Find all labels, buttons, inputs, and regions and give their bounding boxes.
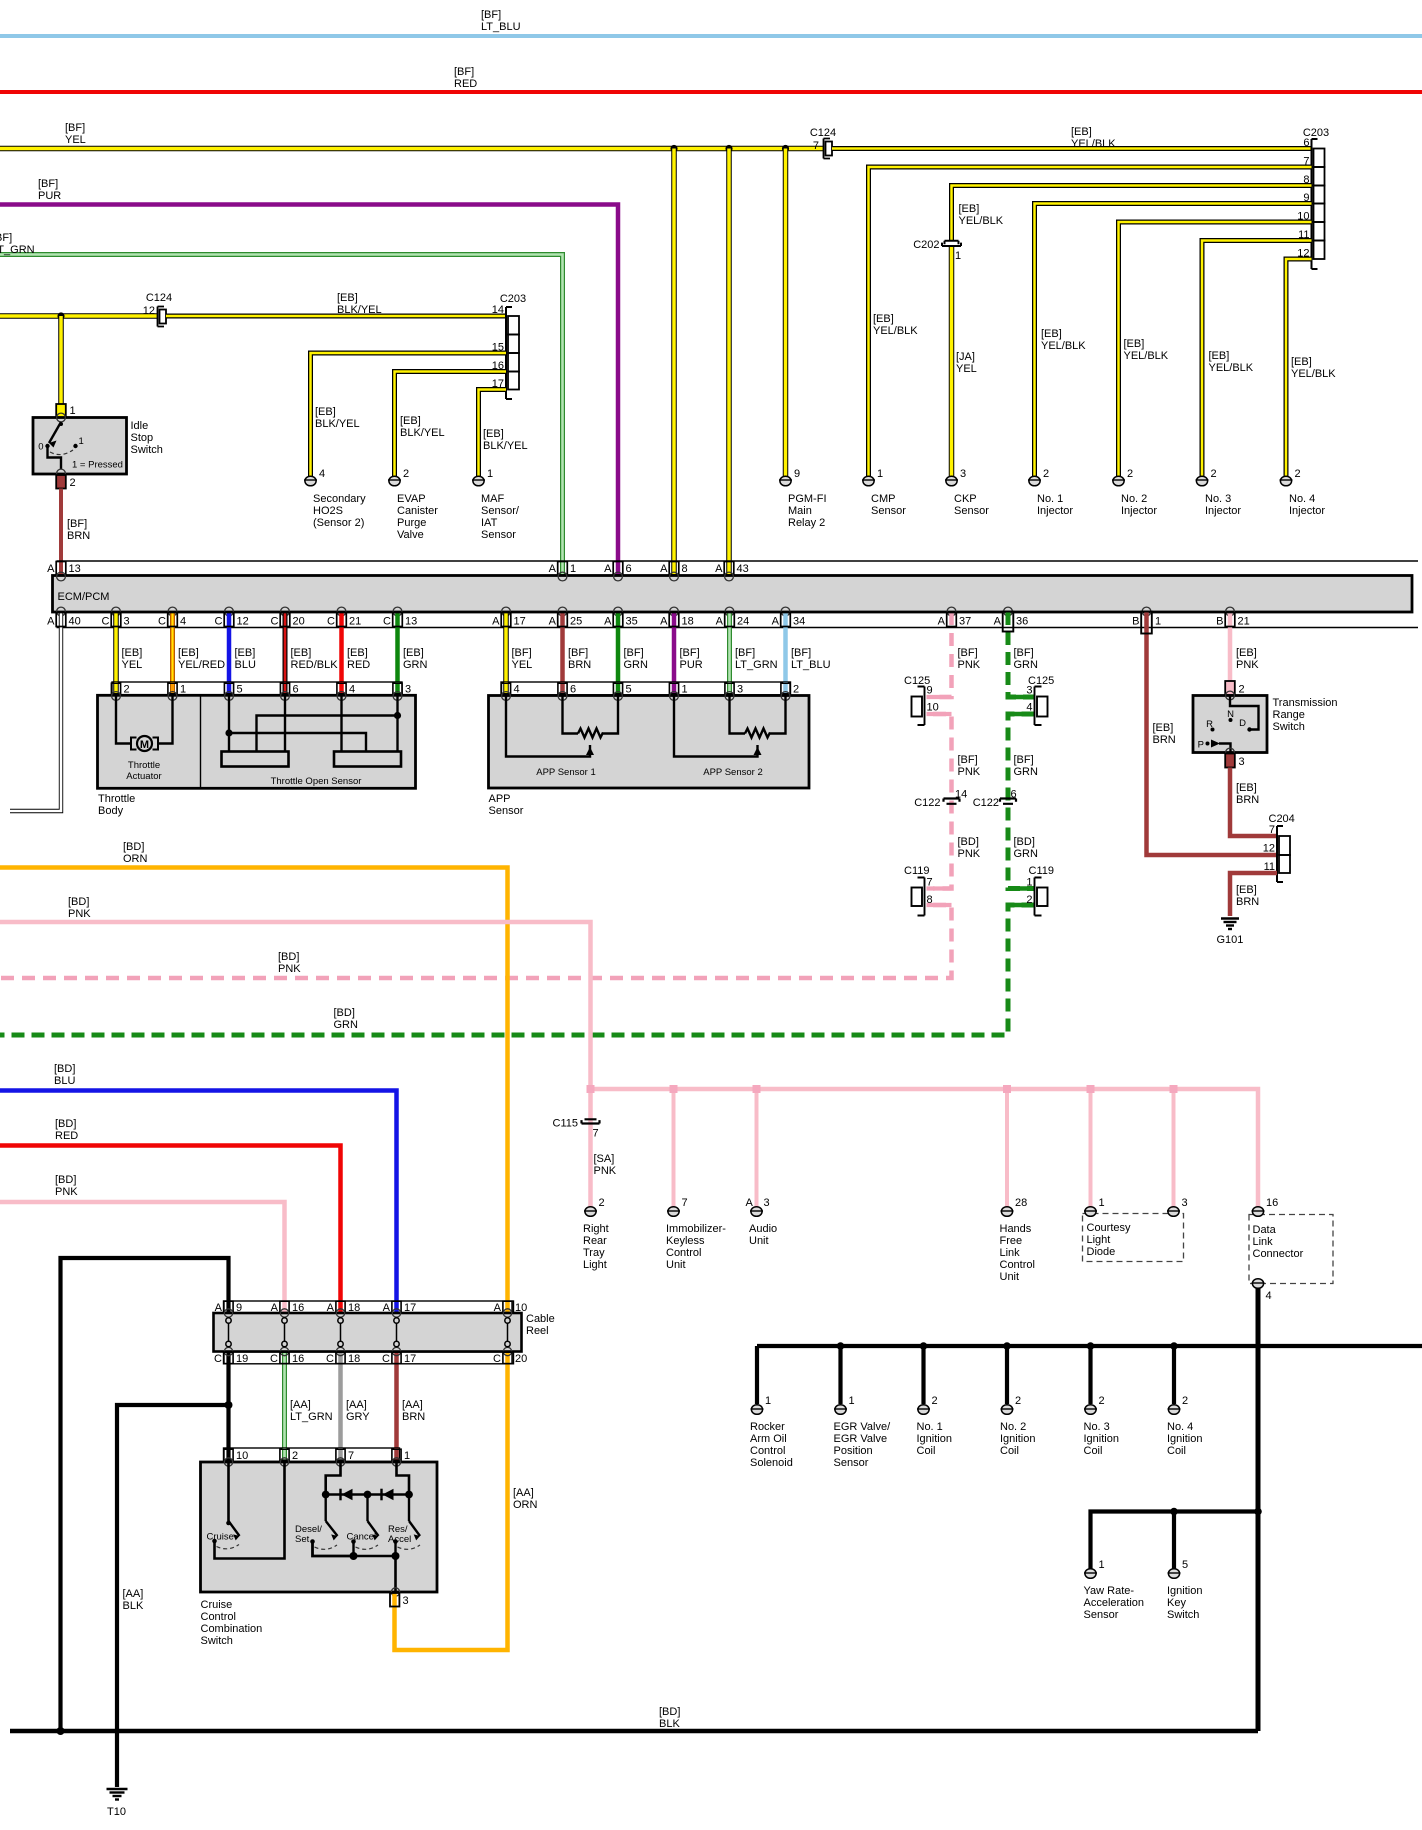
svg-text:Ignition: Ignition	[1084, 1433, 1119, 1445]
svg-text:Sensor: Sensor	[1084, 1609, 1119, 1621]
svg-text:EVAP: EVAP	[397, 493, 426, 505]
svg-text:7: 7	[682, 1197, 688, 1209]
svg-text:28: 28	[1015, 1197, 1027, 1209]
wire [BF] PNK dashed from ECM A37	[0, 612, 952, 978]
node junction BLK branch to T10	[225, 1401, 233, 1409]
svg-text:1: 1	[1099, 1559, 1105, 1571]
wire [SA] PNK distribution bus	[591, 1089, 1259, 1207]
diode D2	[382, 1489, 394, 1501]
svg-text:[BD]: [BD]	[334, 1007, 355, 1019]
connector C115 pin 7	[553, 1118, 600, 1140]
node junction output bar left	[350, 1552, 358, 1560]
svg-text:LT_BLU: LT_BLU	[481, 21, 521, 33]
wire BLK ground distribution bus	[757, 1344, 1422, 1348]
ground G101	[1221, 919, 1239, 930]
svg-text:[BF]: [BF]	[67, 518, 87, 530]
pin A43 of ECM (YEL)	[715, 561, 749, 576]
svg-text:[EB]: [EB]	[337, 292, 358, 304]
pin C21 of ECM (RED)	[327, 612, 370, 682]
wire BLK drop rocker arm solenoid	[755, 1346, 759, 1404]
pin 4 throttle body (RED)	[337, 682, 355, 696]
wire cruise pin 7 to diode bar left	[326, 1462, 409, 1495]
pin 2 cruise switch (LT_GRN)	[280, 1448, 298, 1462]
wire PNK drop to courtesy light diode pin 3	[1172, 1089, 1176, 1207]
svg-text:2: 2	[1026, 894, 1032, 906]
svg-text:BLK/YEL: BLK/YEL	[400, 427, 445, 439]
svg-text:RED: RED	[454, 78, 477, 90]
svg-text:(Sensor 2): (Sensor 2)	[313, 517, 364, 529]
svg-text:BLK/YEL: BLK/YEL	[337, 304, 382, 316]
svg-text:C202: C202	[913, 239, 939, 251]
terminal courtesy light diode pin 1	[1084, 1197, 1131, 1258]
wire PNK drop to immobilizer	[672, 1089, 676, 1207]
svg-text:No. 3: No. 3	[1205, 493, 1231, 505]
svg-text:PNK: PNK	[278, 963, 301, 975]
svg-text:[EB]: [EB]	[403, 647, 424, 659]
svg-text:C: C	[271, 616, 279, 628]
svg-text:Light: Light	[1087, 1234, 1111, 1246]
terminal No.4 injector pin 2	[1280, 468, 1326, 517]
svg-text:Ignition: Ignition	[1167, 1433, 1202, 1445]
svg-text:[JA]: [JA]	[956, 351, 975, 363]
svg-text:C: C	[382, 1353, 390, 1365]
node junction dot pin3 branch	[394, 712, 401, 719]
svg-text:A: A	[604, 563, 612, 575]
pin 7 cruise switch (GRY)	[336, 1448, 354, 1462]
svg-text:Sensor: Sensor	[871, 505, 906, 517]
svg-text:C115: C115	[553, 1118, 578, 1130]
wire YEL drop to idle stop switch	[58, 316, 64, 405]
svg-text:PNK: PNK	[594, 1165, 617, 1177]
svg-text:Accel: Accel	[388, 1534, 411, 1545]
svg-text:Switch: Switch	[1167, 1609, 1199, 1621]
svg-text:Range: Range	[1273, 709, 1305, 721]
svg-text:18: 18	[682, 616, 694, 628]
svg-text:LT_BLU: LT_BLU	[791, 659, 831, 671]
pin 1 throttle body (YEL/RED)	[168, 682, 186, 696]
svg-text:BLU: BLU	[235, 659, 256, 671]
svg-text:Switch: Switch	[131, 444, 163, 456]
svg-text:4: 4	[319, 468, 325, 480]
svg-text:[BD]: [BD]	[54, 1063, 75, 1075]
svg-text:C: C	[158, 616, 166, 628]
component Idle Stop Switch	[56, 404, 66, 418]
svg-text:Transmission: Transmission	[1273, 697, 1338, 709]
wire PNK drop to audio unit	[755, 1089, 759, 1207]
svg-text:GRN: GRN	[403, 659, 428, 671]
svg-text:A: A	[715, 563, 723, 575]
svg-text:B: B	[1216, 616, 1223, 628]
diode D1	[341, 1489, 353, 1501]
wire [EB] YEL/BLK C203-10 to No.2 injector	[1119, 222, 1312, 476]
wire YEL feed to C124-12	[0, 313, 157, 319]
svg-text:BRN: BRN	[1153, 734, 1176, 746]
svg-text:CKP: CKP	[954, 493, 977, 505]
svg-text:C122: C122	[973, 797, 999, 809]
svg-text:3: 3	[403, 1595, 409, 1607]
connector row of APP sensor	[501, 682, 791, 695]
svg-text:A: A	[772, 616, 780, 628]
svg-text:5: 5	[1182, 1559, 1188, 1571]
component ECM/PCM box	[53, 576, 1413, 613]
pin 3 cruise switch (ORN)	[390, 1588, 409, 1607]
pin A36 of ECM	[994, 612, 1038, 672]
connector C203 pins 14-17	[506, 307, 512, 399]
svg-text:[BD]: [BD]	[958, 836, 979, 848]
svg-text:2: 2	[124, 684, 130, 696]
terminal yaw rate-acceleration sensor pin 1	[1084, 1559, 1145, 1621]
wire BLK data link connector pin 4 drop	[1256, 1288, 1261, 1731]
svg-text:1: 1	[79, 436, 84, 447]
svg-text:APP Sensor 2: APP Sensor 2	[703, 767, 763, 778]
switch Cruise	[207, 1462, 285, 1559]
svg-text:[BF]: [BF]	[38, 178, 58, 190]
pin A17 of cable reel	[383, 1301, 417, 1314]
component APP sensor 2 potentiometer	[674, 696, 786, 757]
svg-text:GRN: GRN	[1014, 766, 1039, 778]
svg-text:APP Sensor 1: APP Sensor 1	[536, 767, 596, 778]
svg-text:34: 34	[793, 616, 805, 628]
pin C4 of ECM (YEL/RED)	[158, 612, 225, 682]
node terminal circles cable reel edges	[224, 1309, 511, 1356]
svg-text:EGR Valve: EGR Valve	[834, 1433, 888, 1445]
terminal data link connector pin 16	[1252, 1197, 1304, 1260]
wire pin row line top of ECM	[57, 560, 1419, 562]
svg-text:Audio: Audio	[749, 1223, 777, 1235]
svg-text:C: C	[327, 616, 335, 628]
svg-text:Throttle: Throttle	[98, 793, 135, 805]
wire YEL drop to PGM-FI main relay 2	[783, 149, 789, 477]
svg-text:9: 9	[927, 685, 933, 697]
svg-text:[EB]: [EB]	[1041, 328, 1062, 340]
svg-text:[EB]: [EB]	[1291, 356, 1312, 368]
svg-text:[BD]: [BD]	[659, 1706, 680, 1718]
svg-text:2: 2	[70, 477, 76, 489]
connector row bottom of cable reel	[224, 1352, 514, 1364]
svg-text:PNK: PNK	[1236, 659, 1259, 671]
svg-text:LT_GRN: LT_GRN	[290, 1411, 333, 1423]
svg-text:C122: C122	[914, 797, 940, 809]
node terminal circles APP sensor edge	[502, 692, 790, 701]
svg-text:EGR Valve/: EGR Valve/	[834, 1421, 892, 1433]
connector C125 pins 9/10 (pink)	[904, 675, 939, 725]
svg-text:[EB]: [EB]	[1236, 884, 1257, 896]
svg-text:3: 3	[764, 1197, 770, 1209]
svg-text:YEL: YEL	[122, 659, 143, 671]
svg-text:YEL/RED: YEL/RED	[178, 659, 225, 671]
svg-text:A: A	[938, 616, 946, 628]
svg-text:BRN: BRN	[1236, 896, 1259, 908]
pin A1 of ECM (LT_GRN)	[549, 561, 576, 576]
pin C13 of ECM (GRN)	[383, 612, 427, 682]
wire GRN stubs into C125/C119	[1008, 697, 1033, 905]
svg-text:7: 7	[593, 1128, 599, 1140]
svg-text:[EB]: [EB]	[400, 415, 421, 427]
svg-text:BLK/YEL: BLK/YEL	[315, 418, 360, 430]
svg-text:2: 2	[1182, 1395, 1188, 1407]
svg-text:Light: Light	[583, 1259, 607, 1271]
svg-text:[BF]: [BF]	[624, 647, 644, 659]
svg-text:19: 19	[236, 1353, 248, 1365]
svg-text:16: 16	[1266, 1197, 1278, 1209]
svg-text:[EB]: [EB]	[178, 647, 199, 659]
node terminal circles throttle body edge	[112, 692, 402, 701]
terminal MAF/IAT sensor pin 1	[472, 468, 520, 541]
svg-text:Arm Oil: Arm Oil	[750, 1433, 787, 1445]
pin 4 APP sensor (YEL)	[501, 682, 519, 696]
svg-text:C124: C124	[810, 127, 836, 139]
svg-text:No. 2: No. 2	[1000, 1421, 1026, 1433]
svg-text:YEL/BLK: YEL/BLK	[1209, 362, 1254, 374]
svg-text:Throttle: Throttle	[128, 760, 160, 771]
wire PNK drop to hands free link	[1005, 1089, 1009, 1207]
svg-text:10: 10	[927, 702, 939, 714]
terminal No.2 ignition coil pin 2	[1000, 1395, 1035, 1457]
svg-text:Link: Link	[1000, 1247, 1021, 1259]
svg-text:[BF]: [BF]	[680, 647, 700, 659]
pin 3 throttle body (GRN)	[393, 682, 411, 696]
node junction YEL bus to A43	[725, 145, 732, 152]
svg-text:Throttle Open Sensor: Throttle Open Sensor	[271, 776, 362, 787]
svg-text:12: 12	[237, 616, 249, 628]
node junction diode bar right	[405, 1491, 413, 1499]
svg-text:2: 2	[932, 1395, 938, 1407]
svg-text:MAF: MAF	[481, 493, 505, 505]
component courtesy light diode dashed box	[1083, 1214, 1184, 1262]
svg-text:[BF]: [BF]	[958, 754, 978, 766]
svg-text:9: 9	[794, 468, 800, 480]
svg-text:3: 3	[405, 684, 411, 696]
svg-text:[BF]: [BF]	[65, 122, 85, 134]
svg-text:Right: Right	[583, 1223, 609, 1235]
svg-text:2: 2	[1127, 468, 1133, 480]
pin 1 cruise switch (BRN)	[392, 1448, 410, 1462]
svg-text:C: C	[326, 1353, 334, 1365]
terminal No.2 injector pin 2	[1112, 468, 1157, 517]
svg-text:[EB]: [EB]	[315, 406, 336, 418]
node junction EGR drop	[837, 1342, 845, 1350]
svg-text:36: 36	[1016, 616, 1028, 628]
svg-text:BLK: BLK	[123, 1600, 144, 1612]
terminal rocker arm oil control solenoid pin 1	[750, 1395, 793, 1469]
svg-text:[EB]: [EB]	[235, 647, 256, 659]
component APP sensor 1 potentiometer	[506, 696, 618, 757]
svg-text:Stop: Stop	[131, 432, 154, 444]
svg-text:YEL/BLK: YEL/BLK	[873, 325, 918, 337]
svg-text:[BF]: [BF]	[735, 647, 755, 659]
wire [BF] LT_BLU bus	[0, 34, 1422, 38]
pin A35 of ECM (GRN)	[604, 612, 648, 682]
svg-text:RED: RED	[347, 659, 370, 671]
svg-text:[BF]: [BF]	[568, 647, 588, 659]
svg-text:Yaw Rate-: Yaw Rate-	[1084, 1585, 1135, 1597]
svg-text:RED/BLK: RED/BLK	[291, 659, 339, 671]
svg-text:BLK: BLK	[659, 1718, 680, 1730]
svg-text:[AA]: [AA]	[123, 1588, 144, 1600]
svg-text:Immobilizer-: Immobilizer-	[666, 1223, 726, 1235]
svg-text:Purge: Purge	[397, 517, 426, 529]
connector C125 pins 3/4 (green)	[1026, 675, 1054, 725]
wire BLK yaw rate branch	[1091, 1512, 1259, 1570]
svg-text:YEL/BLK: YEL/BLK	[1041, 340, 1086, 352]
svg-text:Combination: Combination	[201, 1623, 263, 1635]
svg-text:A: A	[549, 563, 557, 575]
component Cruise Control Combination Switch box	[201, 1462, 438, 1592]
svg-text:[BD]: [BD]	[68, 896, 89, 908]
svg-text:PNK: PNK	[958, 848, 981, 860]
wire cruise output bar to pin 3	[354, 1556, 396, 1592]
terminal EVAP canister purge valve pin 2	[388, 468, 438, 541]
svg-text:[AA]: [AA]	[513, 1487, 534, 1499]
svg-text:2: 2	[793, 684, 799, 696]
svg-text:13: 13	[405, 616, 417, 628]
wire [AA] GRY cable reel C18 to cruise pin 7	[341, 1352, 371, 1462]
svg-text:Cancel: Cancel	[347, 1532, 377, 1543]
svg-text:Switch: Switch	[1273, 721, 1305, 733]
node terminal circles cruise switch top edge	[224, 1458, 400, 1466]
terminal Secondary HO2S (Sensor 2) pin 4	[304, 468, 366, 529]
pin C20 of ECM (RED/BLK)	[271, 612, 339, 682]
node junction coil 2 drop	[1003, 1342, 1011, 1350]
svg-text:1: 1	[1099, 1197, 1105, 1209]
svg-text:Control: Control	[666, 1247, 701, 1259]
svg-text:YEL: YEL	[65, 134, 86, 146]
wire YEL drop to ECM A8	[671, 149, 677, 562]
svg-text:APP: APP	[489, 793, 511, 805]
svg-text:Injector: Injector	[1205, 505, 1241, 517]
svg-text:No. 4: No. 4	[1289, 493, 1315, 505]
svg-text:24: 24	[737, 616, 749, 628]
wire [BF] PUR bus	[0, 205, 618, 562]
svg-text:LT_GRN: LT_GRN	[735, 659, 778, 671]
svg-text:Unit: Unit	[1000, 1271, 1020, 1283]
pin 3 APP sensor (LT_GRN)	[725, 682, 743, 696]
svg-text:Connector: Connector	[1253, 1248, 1304, 1260]
svg-text:Courtesy: Courtesy	[1087, 1222, 1132, 1234]
wire BLK drop No.1 ignition coil	[921, 1346, 925, 1404]
wire [AA] BLK cable reel C19 to cruise switch	[226, 1352, 230, 1462]
pin 6 throttle body (RED/BLK)	[280, 682, 298, 696]
pin 6 APP sensor (BRN)	[558, 682, 576, 696]
svg-text:1: 1	[955, 250, 961, 262]
svg-text:[BD]: [BD]	[278, 951, 299, 963]
pin A13 of ECM (BRN)	[47, 561, 81, 576]
pin B21 of ECM	[1216, 613, 1259, 672]
svg-text:[EB]: [EB]	[1209, 350, 1230, 362]
svg-text:BRN: BRN	[402, 1411, 425, 1423]
connector C119 pins 7/8 (pink)	[904, 865, 933, 916]
wire [AA] ORN cable reel C20 to cruise pin 3	[395, 1352, 538, 1650]
terminal EGR valve position sensor pin 1	[834, 1395, 892, 1469]
svg-text:17: 17	[514, 616, 526, 628]
svg-text:Coil: Coil	[917, 1445, 936, 1457]
svg-text:1: 1	[682, 684, 688, 696]
svg-text:YEL/BLK: YEL/BLK	[1071, 138, 1116, 150]
connector C124 pin 7	[824, 139, 831, 159]
pin C16 of cable reel	[270, 1352, 304, 1365]
svg-text:[AA]: [AA]	[290, 1399, 311, 1411]
terminal No.4 ignition coil pin 2	[1167, 1395, 1202, 1457]
svg-text:6: 6	[1303, 137, 1309, 149]
connector C122 pin 6 (green)	[973, 789, 1017, 810]
svg-text:[EB]: [EB]	[1071, 126, 1092, 138]
svg-text:1: 1	[404, 1450, 410, 1462]
svg-text:ECM/PCM: ECM/PCM	[58, 591, 110, 603]
node junction output bar right	[392, 1552, 400, 1560]
svg-text:Data: Data	[1253, 1224, 1277, 1236]
svg-text:PNK: PNK	[958, 659, 981, 671]
svg-text:Keyless: Keyless	[666, 1235, 705, 1247]
wire [BD] PNK bus to cable reel A16	[0, 1202, 285, 1313]
node junction YEL bus to PGM-FI relay	[782, 145, 789, 152]
svg-text:Rear: Rear	[583, 1235, 607, 1247]
svg-text:Link: Link	[1253, 1236, 1274, 1248]
wire [BF] BRN idle stop to ECM A13	[59, 489, 63, 562]
wire [AA] BRN cable reel C17 to cruise pin 1	[397, 1352, 426, 1462]
wire [EB] YEL/BLK C203-11 to No.3 injector	[1202, 241, 1312, 477]
connector C202 pin 1	[945, 241, 959, 244]
wire [AA] BLK branch to ground T10	[117, 1405, 229, 1787]
svg-text:A: A	[492, 616, 500, 628]
svg-text:Injector: Injector	[1037, 505, 1073, 517]
component throttle open sensor wiring	[229, 696, 398, 752]
svg-text:10: 10	[236, 1450, 248, 1462]
svg-text:6: 6	[570, 684, 576, 696]
svg-text:PNK: PNK	[55, 1186, 78, 1198]
component cable reel contact links	[226, 1318, 510, 1347]
ground T10	[107, 1789, 128, 1800]
wire [EB] BRN C204-11 to G101	[1230, 873, 1277, 916]
node junction diode bar middle	[364, 1491, 372, 1499]
component throttle open sensor element left	[222, 752, 289, 767]
svg-text:A: A	[716, 616, 724, 628]
terminal PGM-FI main relay 2 pin 9	[779, 468, 827, 529]
svg-text:2: 2	[1239, 684, 1245, 696]
node junction diode bar left	[322, 1491, 330, 1499]
terminal ignition key switch pin 5	[1167, 1559, 1202, 1621]
component throttle open sensor element right	[334, 752, 401, 767]
node junction pink at C115 branch	[587, 1085, 595, 1093]
wire [BF] RED bus	[0, 90, 1422, 94]
svg-text:Valve: Valve	[397, 529, 424, 541]
svg-text:ORN: ORN	[123, 853, 148, 865]
svg-text:C: C	[270, 1353, 278, 1365]
pin C20 of cable reel	[493, 1352, 527, 1365]
node junction at main vertical	[1254, 1508, 1262, 1516]
svg-text:[BF]: [BF]	[481, 9, 501, 21]
pin A17 of ECM (YEL)	[492, 612, 532, 682]
svg-text:3: 3	[1239, 756, 1245, 768]
switch Cancel	[347, 1495, 379, 1557]
svg-text:[BD]: [BD]	[1014, 836, 1035, 848]
svg-text:Ignition: Ignition	[1000, 1433, 1035, 1445]
svg-text:Idle: Idle	[131, 420, 149, 432]
svg-text:14: 14	[955, 789, 967, 801]
svg-text:No. 2: No. 2	[1121, 493, 1147, 505]
pin 2 throttle body (YEL)	[111, 682, 129, 696]
wire [BD] RED bus to cable reel A18	[0, 1146, 341, 1314]
svg-text:6: 6	[626, 563, 632, 575]
svg-text:[EB]: [EB]	[483, 428, 504, 440]
svg-text:[AA]: [AA]	[346, 1399, 367, 1411]
svg-text:[EB]: [EB]	[873, 313, 894, 325]
svg-text:Coil: Coil	[1000, 1445, 1019, 1457]
pin A8 of ECM (YEL)	[660, 561, 687, 576]
wire [EB] BLK/YEL C124-12 to C203-14	[166, 314, 506, 319]
pin A37 of ECM	[938, 613, 981, 672]
svg-text:1: 1	[487, 468, 493, 480]
wire [BD] ORN bus to cable reel A10	[0, 868, 508, 1314]
